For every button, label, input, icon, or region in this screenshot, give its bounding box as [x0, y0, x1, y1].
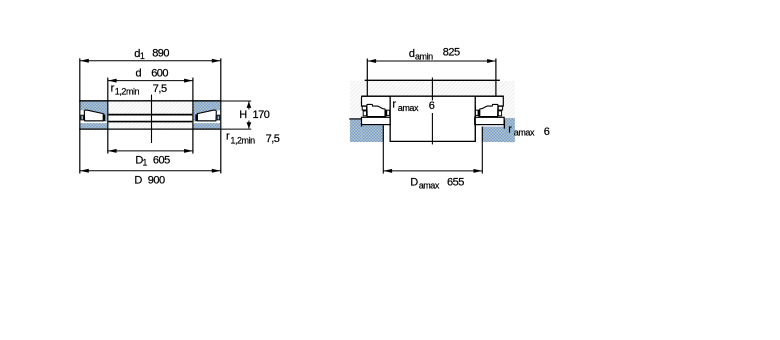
- svg-text:6: 6: [544, 126, 550, 138]
- left shaft washer lip square: [362, 106, 366, 110]
- bearing bore edge / extension line left (d1, D): [79, 58, 81, 173]
- svg-text:1,2min: 1,2min: [230, 136, 255, 146]
- bearing bottom face line: [79, 128, 221, 130]
- svg-text:1: 1: [142, 157, 147, 167]
- right housing washer: [475, 117, 504, 124]
- svg-text:6: 6: [429, 100, 435, 112]
- right housing support block (blue): [504, 118, 515, 142]
- right cage bar: [478, 110, 480, 117]
- svg-text:890: 890: [152, 48, 169, 60]
- shaft shoulder side / extension line left (d_amin): [366, 59, 368, 96]
- dimension line D1 605: [108, 150, 193, 152]
- right roller guide square: [475, 110, 478, 115]
- right housing washer heel: [503, 120, 505, 129]
- centerline left drawing: [151, 95, 153, 143]
- svg-text:655: 655: [447, 176, 464, 188]
- H extension line bottom: [221, 128, 251, 130]
- left roller: [84, 110, 103, 121]
- left roller guide square: [387, 110, 390, 115]
- svg-text:1: 1: [140, 51, 145, 61]
- washer inner edge / extension line right (d, D1): [192, 78, 194, 154]
- right washer lip (blue square): [217, 115, 220, 120]
- white gap behind 6: [428, 100, 437, 113]
- svg-text:D: D: [410, 177, 418, 189]
- svg-text:7,5: 7,5: [266, 133, 280, 145]
- left end: white gap under roller: [80, 122, 107, 124]
- washer inner edge / extension line left (d, D1): [107, 78, 109, 154]
- bearing outer edge / extension line right (d1, D): [220, 58, 222, 173]
- svg-text:d: d: [409, 48, 415, 60]
- shaft cross-section (hatched): [350, 81, 515, 121]
- svg-text:600: 600: [151, 67, 168, 79]
- shaft shoulder side / extension line right (d_amin): [495, 59, 497, 96]
- left housing support inner edge: [382, 125, 384, 142]
- svg-text:1,2min: 1,2min: [115, 86, 140, 96]
- bearing top face line: [79, 100, 221, 102]
- dimension line D_amax 655: [384, 170, 483, 172]
- right roller: [480, 104, 498, 116]
- left housing washer: [362, 117, 391, 124]
- left roller: [367, 104, 385, 116]
- H extension line top: [221, 100, 251, 102]
- svg-text:amax: amax: [398, 103, 419, 113]
- svg-text:amin: amin: [415, 51, 433, 61]
- shaft shoulder top edge: [365, 79, 500, 81]
- left cage bar: [103, 114, 105, 121]
- dimension line d1 890: [80, 60, 221, 62]
- right end: white gap under roller: [194, 122, 221, 124]
- right cage pocket: [498, 111, 501, 116]
- extension line right (D_amax): [481, 142, 483, 174]
- white band between raceways: [108, 115, 192, 120]
- raceway line upper: [108, 114, 192, 116]
- extension line left (D_amax): [382, 142, 384, 174]
- H dimension line with arrows: [248, 102, 250, 110]
- right shaft washer lip square: [498, 106, 502, 110]
- centerline right drawing: [431, 78, 433, 145]
- right shaft washer: [475, 96, 503, 106]
- left end: white gap at outer edge: [80, 110, 84, 122]
- svg-text:H: H: [239, 109, 247, 121]
- left cage bar: [385, 110, 387, 117]
- svg-text:7,5: 7,5: [153, 83, 167, 95]
- dimension line d_amin 825: [368, 60, 496, 62]
- left washer end block (blue): [80, 101, 107, 128]
- right roller: [197, 110, 216, 121]
- raceway line lower: [108, 121, 192, 123]
- right cage bar: [195, 114, 197, 121]
- svg-text:d: d: [136, 67, 142, 79]
- left housing support top edge: [349, 118, 361, 120]
- svg-text:170: 170: [253, 109, 270, 121]
- svg-text:amax: amax: [419, 180, 440, 190]
- svg-text:825: 825: [443, 47, 460, 59]
- svg-text:605: 605: [153, 154, 170, 166]
- dimension line D 900: [80, 170, 221, 172]
- svg-text:D: D: [134, 174, 142, 186]
- dimension line d 600: [108, 80, 193, 82]
- svg-text:900: 900: [148, 174, 165, 186]
- top face line of washers and spacer: [361, 95, 504, 97]
- left housing washer heel: [361, 125, 363, 127]
- hatched center section of washers: [108, 101, 192, 128]
- left housing support block (blue): [350, 119, 361, 142]
- left cage pocket: [363, 111, 366, 116]
- right housing support inner edge: [481, 127, 483, 142]
- right washer end block (blue): [194, 101, 221, 128]
- right end: white gap at outer edge: [216, 110, 220, 122]
- left shaft washer: [362, 96, 391, 106]
- central spacer block edges (redrawn over washers): [389, 96, 391, 141]
- central spacer block: [390, 96, 475, 141]
- left washer lip (blue square): [81, 115, 84, 120]
- svg-text:amax: amax: [514, 128, 535, 138]
